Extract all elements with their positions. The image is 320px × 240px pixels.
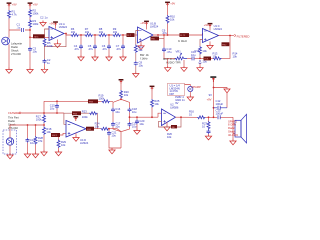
net connector FILTERED in — [8, 111, 21, 115]
node output U1:B — [157, 34, 159, 36]
svg-text:This Part: This Part — [8, 116, 19, 120]
resistor R24 — [95, 121, 109, 130]
svg-text:LM324: LM324 — [150, 25, 159, 29]
svg-text:.47u: .47u — [162, 31, 168, 35]
svg-text:10k: 10k — [167, 135, 172, 139]
node input x44 — [43, 112, 45, 114]
capacitor C8 — [134, 60, 144, 67]
wire mic2 rail — [10, 124, 44, 126]
wire U2 output row — [176, 116, 234, 118]
net label box FILT — [127, 33, 138, 37]
svg-text:10k: 10k — [154, 102, 159, 106]
net label box FB1 — [151, 37, 165, 41]
svg-text:10u: 10u — [202, 59, 207, 63]
node out rail — [213, 116, 215, 118]
wire ladder bus — [64, 34, 127, 36]
svg-text:+9V: +9V — [207, 97, 212, 101]
node bypass — [213, 107, 215, 109]
node U1:C output — [229, 35, 231, 37]
wire pwr to R1 — [8, 7, 10, 10]
capacitor C10 — [162, 47, 172, 54]
svg-text:270-090: 270-090 — [11, 52, 21, 56]
capacitor C2 to ground — [40, 16, 48, 27]
svg-text:+9V: +9V — [49, 22, 54, 26]
svg-text:Shack: Shack — [8, 123, 16, 127]
power +9V divider — [28, 2, 38, 7]
resistor R6 — [71, 27, 80, 36]
capacitor C19 — [128, 122, 138, 129]
svg-text:10u: 10u — [115, 125, 120, 129]
wire C9 C10 drop — [163, 35, 165, 58]
node twin-T tap — [129, 116, 131, 118]
svg-text:.47u: .47u — [116, 47, 122, 51]
ground U1:C — [207, 41, 213, 49]
power +9V U1:B — [140, 21, 149, 30]
speaker note text — [228, 119, 238, 137]
resistor R27 zobel — [202, 117, 210, 129]
node output4 — [108, 128, 110, 130]
ground speaker — [230, 139, 236, 145]
net label box MIC2 — [51, 133, 66, 137]
resistor R2 — [29, 9, 39, 18]
capacitor C4 shunt with ground — [74, 35, 84, 61]
wire U2 feedback — [159, 117, 182, 127]
power +9V mic pull-up — [7, 2, 17, 7]
wire U1:D output row — [94, 129, 121, 132]
node mic2 rail b — [35, 124, 37, 126]
svg-text:10k: 10k — [170, 18, 175, 22]
wire speaker branch — [233, 117, 235, 139]
ground divider — [41, 150, 47, 156]
wire supply branch — [214, 88, 228, 90]
svg-text:DIP: DIP — [170, 92, 175, 96]
ground mic2 — [7, 153, 13, 159]
wire U1:B inverting leg — [136, 31, 139, 72]
svg-text:R23: R23 — [82, 109, 87, 113]
resistor R16 — [189, 109, 206, 118]
note text parts — [8, 116, 19, 131]
svg-text:Lafayette: Lafayette — [11, 42, 23, 46]
svg-text:100k: 100k — [33, 22, 39, 26]
ground OPAMP — [187, 92, 193, 101]
svg-text:33k: 33k — [138, 48, 143, 52]
ground U2 — [164, 122, 170, 131]
wire input net — [21, 112, 64, 114]
capacitor C2b feedback ground leg — [41, 47, 51, 73]
capacitor C16 — [111, 107, 121, 114]
wire U1:B output bus — [153, 33, 203, 35]
note text audio taper — [163, 57, 181, 64]
power +9V amp arrow — [210, 76, 216, 87]
node input x57 — [56, 112, 58, 114]
svg-text:Radio: Radio — [11, 45, 19, 49]
svg-text:.47u: .47u — [88, 47, 94, 51]
net label box FB3 — [88, 99, 98, 103]
wire bias to +in U1:A — [30, 36, 49, 38]
svg-text:10u: 10u — [139, 122, 144, 126]
wire mic coupling row — [9, 29, 30, 31]
resistor R5 feedback — [43, 38, 53, 48]
net label box MIC — [33, 34, 45, 38]
net connector FILTERED out — [233, 34, 249, 38]
net label box FB6 — [171, 125, 177, 129]
capacitor C6 shunt with ground — [102, 35, 112, 61]
svg-text:10u: 10u — [115, 110, 120, 114]
wire callout to connector — [185, 85, 191, 87]
resistor R1 — [8, 10, 18, 19]
node ladder 2 — [94, 34, 96, 36]
resistor R25 — [151, 99, 160, 117]
power +9V U2 bias — [150, 86, 155, 99]
svg-text:.47u: .47u — [166, 50, 172, 54]
power +9V U1:C — [204, 23, 213, 31]
node twin-T top — [120, 98, 122, 100]
resistor R20 — [120, 90, 130, 99]
IC package note callout — [168, 83, 186, 105]
svg-text:FLT2: FLT2 — [180, 35, 186, 37]
capacitor C15 — [50, 101, 59, 113]
svg-text:FILTERED: FILTERED — [237, 34, 250, 38]
node U2 out — [180, 116, 182, 118]
svg-text:10k: 10k — [71, 30, 76, 34]
svg-text:47k: 47k — [38, 139, 43, 143]
potentiometer VR1 — [175, 50, 187, 60]
op-amp U2 LM386 — [162, 103, 179, 126]
svg-text:1u: 1u — [47, 61, 50, 65]
svg-text:10k: 10k — [99, 30, 104, 34]
net label box FB2 — [222, 42, 231, 46]
speaker SPKR1 — [235, 114, 247, 143]
capacitor C5 shunt with ground — [88, 35, 98, 61]
svg-text:SPKR1: SPKR1 — [228, 119, 237, 123]
resistor R10 — [166, 15, 175, 35]
svg-text:10: 10 — [202, 124, 205, 128]
svg-text:+9V: +9V — [170, 2, 175, 6]
power +9V battery note — [210, 76, 216, 82]
capacitor C12 bypass — [214, 99, 228, 110]
wire tap to U2 — [130, 113, 162, 117]
svg-text:LM324: LM324 — [214, 27, 223, 31]
svg-text:Radio: Radio — [8, 119, 16, 123]
node bias tap — [29, 36, 31, 38]
svg-text:MCP 41.2: MCP 41.2 — [163, 57, 175, 61]
svg-text:10k: 10k — [124, 93, 129, 97]
op-amp U1:D — [66, 121, 89, 146]
ground mic — [6, 68, 12, 74]
op-amp U1:A — [49, 22, 68, 41]
svg-text:100uF: 100uF — [216, 102, 224, 106]
svg-text:fc 3kHz: fc 3kHz — [178, 39, 188, 43]
svg-text:Shack: Shack — [11, 49, 19, 53]
op-amp U1:B — [138, 22, 159, 43]
svg-text:AUDIO TPR: AUDIO TPR — [166, 61, 181, 65]
svg-text:.1u: .1u — [17, 26, 21, 30]
svg-text:+9V: +9V — [12, 2, 17, 6]
wire divider vertical — [43, 101, 45, 150]
wire U1:C fb leg — [200, 40, 203, 59]
microphone MIC1 — [2, 30, 10, 68]
power net text — [207, 93, 212, 101]
svg-text:10k: 10k — [202, 49, 207, 53]
net label box FLT2 — [178, 33, 189, 43]
wire supply vertical — [213, 88, 215, 118]
ground bias — [27, 68, 33, 74]
svg-text:10u: 10u — [191, 53, 196, 57]
node mic2 rail x44 — [43, 124, 45, 126]
svg-text:VR1: VR1 — [176, 50, 182, 54]
resistor R29 — [55, 137, 66, 156]
capacitor C18 — [128, 107, 138, 114]
svg-text:100k: 100k — [33, 12, 39, 16]
svg-text:10u: 10u — [139, 63, 144, 67]
node zobel — [208, 116, 210, 118]
capacitor C22 zobel — [205, 130, 211, 140]
net label box VOL — [204, 57, 212, 61]
svg-text:10k: 10k — [95, 124, 100, 128]
svg-text:1u: 1u — [45, 16, 48, 20]
resistor R15 — [195, 46, 208, 55]
node supply — [213, 87, 215, 89]
svg-text:100k: 100k — [47, 44, 53, 48]
wire pwr to R20 — [120, 84, 122, 90]
resistor R13 — [213, 52, 222, 60]
svg-text:9V: 9V — [175, 101, 178, 105]
ground U1:D — [73, 133, 79, 141]
svg-text:FLT: FLT — [127, 35, 131, 37]
svg-text:f 1kHz: f 1kHz — [140, 56, 148, 60]
resistor R9 — [113, 27, 122, 36]
svg-text:10u: 10u — [132, 125, 137, 129]
wire pwr to R2 — [29, 7, 31, 9]
node ladder 1 — [80, 34, 82, 36]
ground U1:A — [54, 40, 60, 48]
node U1:A output — [65, 33, 67, 35]
wire volume row — [164, 36, 230, 59]
resistor R26 label — [167, 132, 172, 139]
node C9 tap — [163, 34, 165, 36]
svg-text:OPAMP: OPAMP — [191, 85, 201, 89]
capacitor C30 to ground — [197, 59, 208, 71]
node rail A C15 — [56, 100, 58, 102]
node mic2 rail a — [27, 124, 29, 126]
svg-text:MIC: MIC — [34, 37, 38, 39]
resistor R28 — [32, 125, 43, 158]
wire rail A — [44, 100, 113, 102]
node C20 — [136, 116, 138, 118]
op-amp U1:C — [203, 24, 223, 42]
capacitor C21 below output — [107, 129, 121, 148]
svg-text:10u: 10u — [132, 110, 137, 114]
ground decoupling — [224, 89, 230, 108]
svg-text:.47u: .47u — [74, 47, 80, 51]
svg-text:Radio: Radio — [228, 126, 236, 130]
wire C3 to ground — [29, 52, 31, 68]
resistor R18 — [43, 127, 52, 136]
svg-text:LM386: LM386 — [170, 106, 179, 110]
svg-text:10k: 10k — [61, 143, 66, 147]
resistor R17 — [36, 115, 46, 124]
power +9V twin-T — [119, 79, 124, 84]
capacitor C13 output — [216, 108, 224, 119]
svg-text:10u: 10u — [50, 107, 55, 111]
wire bias tap to cap C3 — [29, 37, 31, 47]
svg-text:8 Ohm: 8 Ohm — [228, 123, 237, 127]
resistor R8 — [99, 27, 108, 36]
capacitor C11 — [191, 50, 196, 60]
resistor R19 — [99, 93, 111, 102]
ground U1:B feedback — [133, 72, 139, 78]
node bias tee — [167, 34, 169, 36]
node ladder 3 — [108, 34, 110, 36]
microphone MIC2 dashed enclosure — [3, 125, 17, 154]
svg-text:+9V: +9V — [140, 21, 145, 25]
capacitor C20 — [134, 117, 145, 134]
power +9V U1:D — [73, 116, 78, 121]
power +9V U1:A — [49, 21, 58, 29]
resistor R11 — [134, 45, 143, 54]
svg-text:MIC2: MIC2 — [52, 135, 58, 137]
svg-text:C2: C2 — [40, 16, 44, 20]
capacitor C1 — [17, 23, 24, 32]
svg-text:100k: 100k — [82, 115, 88, 119]
svg-text:LM324: LM324 — [59, 25, 68, 29]
svg-text:10k: 10k — [213, 54, 218, 58]
svg-text:100k: 100k — [36, 118, 42, 122]
svg-text:.47u: .47u — [102, 47, 108, 51]
svg-text:4.7k: 4.7k — [12, 13, 18, 17]
wire U1:C output — [219, 35, 234, 37]
wire U1:A feedback loop — [45, 29, 67, 47]
svg-text:R15: R15 — [195, 49, 200, 53]
ground volume row left — [165, 58, 171, 71]
svg-text:10u: 10u — [33, 50, 38, 54]
svg-text:+9V: +9V — [204, 23, 209, 27]
node C1 right — [29, 29, 31, 31]
svg-text:10u: 10u — [111, 134, 116, 138]
svg-text:10k: 10k — [46, 130, 51, 134]
wire R1 to mic node — [8, 19, 10, 31]
svg-text:10k: 10k — [113, 30, 118, 34]
wire R2 to R3 — [29, 18, 31, 20]
svg-text:100k: 100k — [99, 96, 105, 100]
resistor R3 — [29, 19, 39, 28]
node U2 input — [151, 116, 153, 118]
resistor R7 — [85, 27, 94, 36]
capacitor C7 shunt with ground — [116, 35, 126, 61]
wire twin-T loop — [113, 99, 130, 148]
svg-text:10k: 10k — [85, 30, 90, 34]
ground pot wiper leg — [181, 60, 187, 72]
note text BW — [140, 53, 149, 60]
resistor R23 — [82, 109, 98, 119]
capacitor C3 — [28, 47, 37, 54]
svg-text:+9V: +9V — [33, 2, 38, 6]
wire R3 to bias node — [29, 28, 31, 37]
resistor R14 label — [233, 52, 238, 59]
svg-text:Shack: Shack — [228, 130, 236, 134]
svg-text:LM324: LM324 — [80, 141, 89, 145]
capacitor C9 label — [162, 28, 168, 35]
capacitor C14 — [24, 125, 35, 158]
svg-text:9V: 9V — [209, 93, 212, 97]
wire rail B — [64, 113, 98, 129]
svg-text:10: 10 — [189, 112, 192, 116]
microphone note text — [11, 42, 23, 57]
power +9V bias tee — [165, 2, 175, 15]
svg-text:10k: 10k — [233, 55, 238, 59]
ground bottom rail — [109, 148, 115, 154]
svg-text:276-092: 276-092 — [8, 126, 18, 130]
svg-text:40-1303: 40-1303 — [228, 133, 238, 137]
net label box FB4 — [72, 111, 81, 115]
capacitor C17 — [111, 122, 121, 129]
node ladder 4 — [122, 34, 124, 36]
node volume tap — [199, 58, 201, 60]
net label box FB5 on output — [86, 127, 94, 131]
svg-text:100uF: 100uF — [216, 111, 224, 115]
connector OPAMP power — [188, 85, 201, 92]
ground U1:B — [138, 41, 144, 49]
